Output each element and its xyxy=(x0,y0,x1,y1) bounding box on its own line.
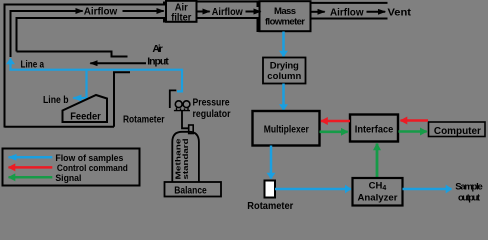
svg-text:Feeder: Feeder xyxy=(70,111,101,123)
regulator to cylinder pipe xyxy=(182,111,189,129)
svg-text:Airflow: Airflow xyxy=(84,5,118,17)
legend box xyxy=(3,149,140,186)
svg-text:Control command: Control command xyxy=(57,163,128,173)
cylinder vertical label xyxy=(176,138,190,179)
duct lower wall after filter xyxy=(197,18,260,31)
svg-text:standard: standard xyxy=(183,139,190,180)
inlet duct step xyxy=(17,52,128,57)
analyzer to interface signal line (green) xyxy=(376,144,379,179)
svg-text:Line a: Line a xyxy=(21,59,45,71)
legend flow of samples arrow (blue) xyxy=(9,156,53,159)
duct upper wall after filter xyxy=(197,2,260,7)
svg-text:regulator: regulator xyxy=(193,108,231,120)
air input arrow xyxy=(90,62,146,64)
rotameter tube xyxy=(265,181,276,198)
svg-text:Rotameter: Rotameter xyxy=(247,201,293,211)
airflow arrow to vent xyxy=(367,11,386,13)
line b sample line (blue) xyxy=(73,71,86,98)
airflow arrow segment into air filter xyxy=(123,10,164,12)
interface box xyxy=(350,115,398,142)
pressure regulator gauge 2 xyxy=(183,101,190,108)
svg-text:Line b: Line b xyxy=(43,94,69,106)
svg-text:Sample: Sample xyxy=(455,182,483,193)
svg-text:Flow of samples: Flow of samples xyxy=(55,153,123,163)
pressure regulator base comb xyxy=(174,108,190,111)
svg-text:Pressure: Pressure xyxy=(193,97,230,109)
svg-text:Air: Air xyxy=(152,43,163,55)
CH4 analyzer box xyxy=(353,178,403,206)
legend control command arrow (red) xyxy=(9,166,53,169)
pressure regulator gauge 1 xyxy=(175,101,182,108)
svg-text:output: output xyxy=(458,193,481,204)
svg-text:Vent: Vent xyxy=(388,7,412,19)
svg-text:Analyzer: Analyzer xyxy=(358,193,398,204)
flowmeter to drying column line (blue) xyxy=(282,32,285,57)
vent duct upper line xyxy=(311,2,388,4)
legend signal arrow (green) xyxy=(9,176,53,179)
multiplexer box xyxy=(253,111,320,146)
svg-text:Balance: Balance xyxy=(174,185,207,196)
svg-text:Interface: Interface xyxy=(355,123,394,135)
airflow arrow into mass flowmeter xyxy=(246,11,261,13)
air filter box xyxy=(166,1,197,22)
chamber right wall with stub xyxy=(114,72,130,126)
airflow arrow out of flowmeter xyxy=(311,11,325,13)
computer to interface control line (red) xyxy=(401,119,429,122)
interface to multiplexer control line (red) xyxy=(321,120,350,123)
line a up arrowhead xyxy=(9,59,11,65)
svg-text:column: column xyxy=(267,71,301,82)
svg-text:filter: filter xyxy=(171,12,191,24)
svg-text:Input: Input xyxy=(147,55,169,67)
svg-text:Methane: Methane xyxy=(176,138,183,179)
svg-text:Rotameter: Rotameter xyxy=(123,113,165,125)
balance box xyxy=(165,182,222,197)
svg-text:Signal: Signal xyxy=(55,173,81,183)
drying column to multiplexer line (blue) xyxy=(282,84,285,111)
svg-text:Airflow: Airflow xyxy=(330,6,364,18)
multiplexer to rotameter line (blue) xyxy=(270,146,273,179)
svg-text:Drying: Drying xyxy=(270,61,299,72)
vent duct lower line xyxy=(311,18,388,20)
airflow arrow out of filter xyxy=(197,11,210,13)
computer box xyxy=(429,122,486,137)
interface to computer signal line (green) xyxy=(399,130,427,133)
feeder hopper xyxy=(63,95,108,122)
duct lower wall (line3) xyxy=(17,18,167,52)
svg-text:Computer: Computer xyxy=(434,125,481,137)
chamber outer duct wall (line1) xyxy=(5,2,165,128)
svg-text:Airflow: Airflow xyxy=(212,6,244,18)
chamber bottom wall xyxy=(5,126,115,128)
svg-text:Multiplexer: Multiplexer xyxy=(264,123,309,135)
svg-text:Mass: Mass xyxy=(274,6,296,17)
analyzer to sample output line (blue) xyxy=(403,188,452,191)
duct centerline sample tube (line2) xyxy=(11,11,83,57)
line a sample line (blue) xyxy=(11,60,183,92)
multiplexer to interface signal line (green) xyxy=(320,131,348,134)
mass flowmeter box xyxy=(260,1,311,31)
pressure regulator bracket xyxy=(170,90,177,108)
cylinder valve neck xyxy=(189,125,194,134)
methane standard cylinder xyxy=(172,132,199,182)
rotameter to analyzer line (blue) xyxy=(275,188,351,191)
svg-text:flowmeter: flowmeter xyxy=(265,17,305,28)
drying column box xyxy=(263,58,306,84)
